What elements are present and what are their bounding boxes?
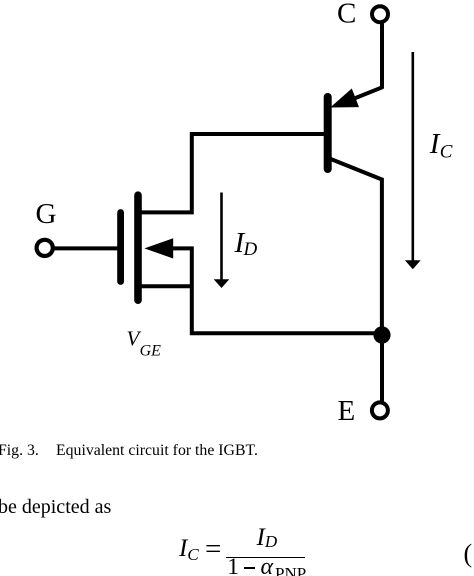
mosfet M1 body arrow — [144, 238, 173, 258]
pnp transistor Q1 collector lead — [330, 159, 382, 336]
label V_GE — [127, 326, 162, 359]
wire: body arrow to source node — [168, 248, 382, 333]
wire: C terminal down to PNP emitter lead — [380, 23, 384, 89]
svg-text:E: E — [338, 395, 356, 427]
mosfet M1 gate bar — [117, 213, 124, 282]
junction dot (emitter node) — [373, 326, 390, 343]
svg-text:GE: GE — [140, 343, 162, 360]
figure caption: Fig. 3. Equivalent circuit for the IGBT. — [0, 443, 39, 459]
current arrow I_D — [214, 193, 230, 289]
fraction denominator 1 - alpha_PNP — [227, 556, 239, 576]
fraction bar — [226, 557, 305, 559]
label I_D — [234, 227, 258, 260]
terminal G circle — [37, 240, 53, 256]
equation: I_C = I_D / (1 - alpha_PNP) — [179, 536, 199, 563]
body text: be depicted as — [0, 497, 111, 517]
mosfet M1 channel bar — [134, 195, 142, 300]
terminal C circle — [372, 6, 388, 22]
pnp transistor Q1 base bar — [324, 97, 332, 169]
wire: junction down to E terminal — [380, 335, 384, 401]
terminal E circle — [372, 402, 388, 418]
wire: gate terminal to gate bar — [53, 246, 118, 250]
wire: MOSFET source — [139, 284, 192, 288]
pnp transistor Q1 emitter lead with arrow — [330, 87, 382, 107]
svg-text:C: C — [337, 0, 356, 30]
svg-text:C: C — [440, 141, 453, 162]
label I_C — [429, 128, 453, 163]
equation number opening parenthesis — [464, 541, 473, 567]
svg-text:D: D — [243, 239, 258, 260]
svg-text:G: G — [36, 198, 57, 230]
wire: MOSFET drain up and over to PNP base — [139, 134, 327, 212]
current arrow I_C — [405, 52, 421, 269]
fraction numerator I_D — [257, 525, 278, 550]
